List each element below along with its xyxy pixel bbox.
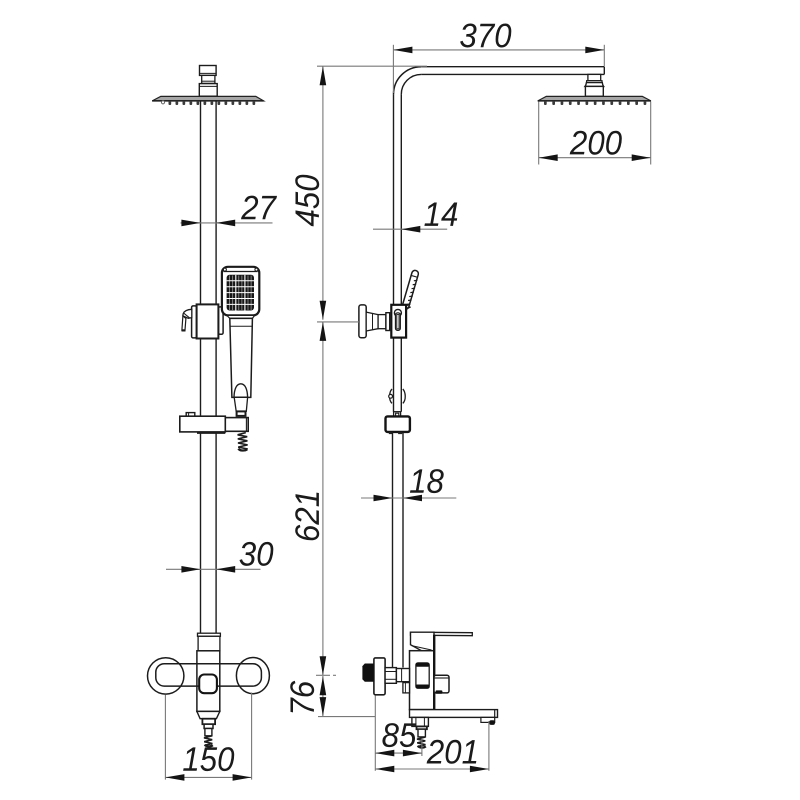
nozzles (side plate) xyxy=(544,101,646,105)
slider block (side) xyxy=(391,305,406,338)
dim 450 top extension xyxy=(317,65,427,67)
dim 30 line xyxy=(166,568,261,570)
pipe union collar xyxy=(386,416,410,432)
hand shower spray face xyxy=(227,275,254,311)
dim 150 text xyxy=(183,747,234,771)
hand shower (side, in holder) xyxy=(402,270,420,310)
dim 76 text xyxy=(290,681,314,713)
ball joint (side) xyxy=(585,74,604,96)
hand shower neck xyxy=(227,315,255,318)
dim 370 line xyxy=(393,49,604,51)
diverter knob (side) xyxy=(434,675,449,694)
dim 621 text xyxy=(295,493,319,541)
slider left tab (front) xyxy=(192,306,197,338)
dim 200 line xyxy=(539,157,651,159)
dim 76 bottom extension xyxy=(318,716,375,718)
spout aerator xyxy=(481,717,495,725)
slider right tab (front) xyxy=(218,307,223,334)
riser pipe lower (side, 18mm) xyxy=(393,432,404,668)
handle connector xyxy=(237,411,246,416)
dim 30 arrows xyxy=(181,566,235,573)
dim 18 line xyxy=(361,497,456,499)
slider knob flange (side) xyxy=(359,305,366,338)
cartridge detail xyxy=(416,663,429,688)
overhead shower plate (side, edge-on) xyxy=(538,96,651,101)
dim 85 line xyxy=(375,752,422,754)
dim 150 arrows xyxy=(165,774,251,781)
overhead shower plate (front, edge-on) xyxy=(152,96,263,101)
dim 14 arrow xyxy=(401,226,420,233)
dim 76 line xyxy=(322,676,324,716)
mixer collar top (front) xyxy=(198,633,221,636)
dim 370 arrows xyxy=(393,47,604,54)
wall escutcheon left xyxy=(148,658,184,694)
wall flange (side) xyxy=(374,658,385,695)
dim 76 arrows xyxy=(320,676,327,716)
dim 201 arrows xyxy=(375,766,489,773)
nozzles (front plate) xyxy=(169,101,256,105)
dim 85 text xyxy=(382,723,416,747)
hanging hole (front plate left end) xyxy=(161,101,164,104)
dim 30 text xyxy=(240,542,274,566)
mixer body right edge xyxy=(433,635,435,710)
hand shower corner screws xyxy=(223,268,226,271)
mixer handle block (side) xyxy=(411,632,435,651)
riser pipe upper (side, 14mm) xyxy=(394,94,402,411)
slider keyhole xyxy=(394,309,401,330)
ball joint cone (front) xyxy=(199,84,217,97)
hose outlet (side) xyxy=(412,717,429,737)
dim 18 text xyxy=(410,469,444,493)
wall hex nut (black) xyxy=(362,664,373,682)
dim 201 text xyxy=(427,740,477,764)
top arm end face (front) xyxy=(200,66,217,76)
mixer button xyxy=(199,675,217,694)
dim 85 arrows xyxy=(375,750,422,757)
dim 621 arrows xyxy=(320,322,327,675)
clamp screw xyxy=(389,394,393,398)
horizontal arm (side) xyxy=(421,67,604,75)
dim 201 extension line xyxy=(488,721,490,771)
mixer handle blade xyxy=(411,632,473,636)
slider lock lever xyxy=(182,309,192,330)
hand shower head (front) xyxy=(222,267,259,316)
dim 150 line xyxy=(165,776,251,778)
mixer lower taper (front) xyxy=(197,711,220,718)
mixer body (side) xyxy=(410,651,435,710)
bracket left part xyxy=(180,416,226,432)
collar tabs xyxy=(389,432,402,434)
spout (side) xyxy=(410,710,498,718)
dim 27 text xyxy=(241,196,277,220)
outlet coil (side) xyxy=(417,737,426,748)
aerator stack (front) xyxy=(202,719,215,736)
riser column (front) xyxy=(201,101,217,633)
small fitting below adapter xyxy=(403,683,410,693)
handle cone insert xyxy=(234,384,248,397)
slider mid extension xyxy=(317,321,359,323)
dim 450 arrows xyxy=(320,66,327,320)
hand shower top band xyxy=(224,271,258,273)
bracket right part xyxy=(225,418,248,432)
dim 200 text xyxy=(570,131,622,155)
outlet coil (front) xyxy=(204,736,213,747)
dim 85 extension lines xyxy=(375,696,422,771)
dim 27 line xyxy=(181,222,273,224)
slider main block (front) xyxy=(197,304,219,338)
dim 14 line xyxy=(373,228,447,230)
bracket under lip xyxy=(197,432,225,434)
dim 200 arrows xyxy=(539,154,651,161)
wall escutcheon right xyxy=(236,658,269,694)
dim 200 extension lines xyxy=(539,102,651,165)
mixer collar (front) xyxy=(198,636,220,651)
handle taper xyxy=(234,397,247,411)
pipe clamp arcs xyxy=(390,389,406,403)
ball joint cylinder (front) xyxy=(202,75,215,83)
mixer body (front) xyxy=(197,651,220,712)
mixer cross bar xyxy=(156,664,262,686)
dim 150 extension lines xyxy=(165,693,251,780)
pipe union neck xyxy=(394,412,401,417)
slider knob neck xyxy=(366,312,389,331)
dim 201 line xyxy=(375,768,489,770)
dim 370 text xyxy=(460,24,511,48)
dim 14 text xyxy=(424,203,457,226)
dim 450 line xyxy=(322,66,324,320)
dim 621 line xyxy=(322,322,324,675)
bracket top tab xyxy=(186,413,195,417)
pipe bend xyxy=(394,67,422,95)
hand shower lower end behind block xyxy=(406,304,410,308)
bracket hose coil xyxy=(238,433,248,451)
dim 370 extension lines xyxy=(393,45,604,93)
dim 450 text xyxy=(295,175,319,227)
hex adapter xyxy=(385,668,409,684)
mixer center tick xyxy=(316,674,330,676)
hand shower handle xyxy=(230,318,253,397)
dim 27 arrows xyxy=(181,220,235,227)
dim 18 arrows xyxy=(374,495,423,502)
